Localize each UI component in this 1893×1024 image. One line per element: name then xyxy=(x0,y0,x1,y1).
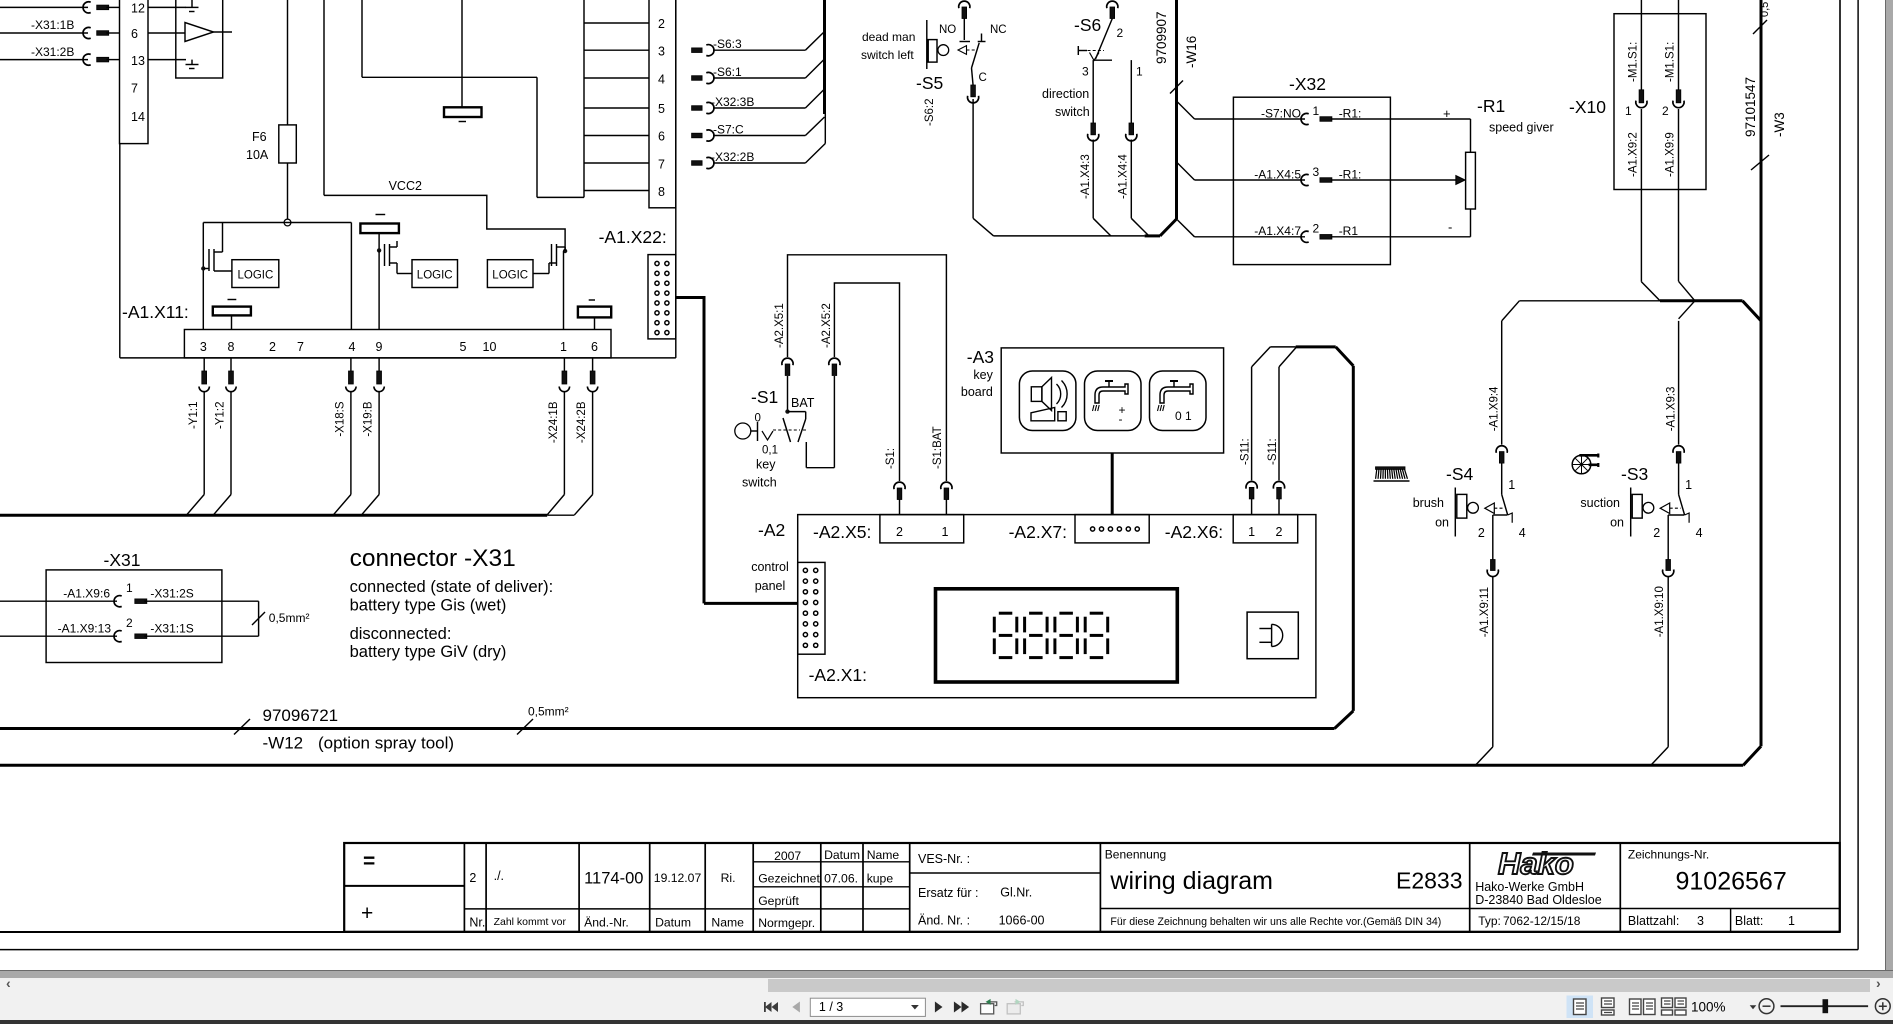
Hako logo xyxy=(1498,846,1596,881)
svg-text:-A3: -A3 xyxy=(967,347,994,367)
switch -S5 contacts xyxy=(960,41,971,43)
svg-text:LOGIC: LOGIC xyxy=(238,270,274,282)
svg-text:-A1.X4:5: -A1.X4:5 xyxy=(1254,167,1301,181)
wire S6 top xyxy=(1107,1,1118,8)
svg-text:on: on xyxy=(1610,516,1624,530)
svg-text:Blatt:: Blatt: xyxy=(1735,914,1764,928)
svg-text:3: 3 xyxy=(200,340,207,354)
svg-text:Ersatz für :: Ersatz für : xyxy=(918,886,978,900)
layout two pages continuous xyxy=(1662,998,1687,1015)
wire X10:2 to -S3 xyxy=(1679,281,1695,301)
svg-text:-A1.X9:10: -A1.X9:10 xyxy=(1654,586,1666,637)
wire -A1.X4:3 xyxy=(1092,60,1094,123)
title block frame xyxy=(0,931,1840,933)
zoom in xyxy=(1875,999,1890,1014)
bus -W3 xyxy=(1760,0,1763,746)
svg-text:-S7:C: -S7:C xyxy=(713,122,744,136)
svg-text:-S5: -S5 xyxy=(916,73,943,93)
ground at op-amp bottom xyxy=(191,60,193,65)
wire pin 3 row xyxy=(584,49,649,51)
wire -Y1:1 xyxy=(203,358,205,371)
svg-text:Name: Name xyxy=(867,848,900,862)
svg-text:5: 5 xyxy=(658,102,665,116)
svg-text:-A1.X9:9: -A1.X9:9 xyxy=(1665,132,1677,177)
svg-text:-A1.X4:4: -A1.X4:4 xyxy=(1118,154,1130,199)
svg-text:on: on xyxy=(1435,516,1449,530)
svg-text:-A1.X22:: -A1.X22: xyxy=(599,227,667,247)
svg-text:Änd.-Nr.: Änd.-Nr. xyxy=(584,916,629,930)
ground at op-amp top xyxy=(191,0,193,7)
scroll chevron right xyxy=(1876,975,1881,991)
svg-text:19.12.07: 19.12.07 xyxy=(654,871,702,885)
wire pin 6 row xyxy=(584,135,649,137)
module outline bottom xyxy=(0,764,1743,767)
brush icon xyxy=(1374,480,1410,482)
svg-text:LOGIC: LOGIC xyxy=(492,270,528,282)
svg-text:Hako-Werke GmbH: Hako-Werke GmbH xyxy=(1475,880,1584,894)
wire -M1.S1: pin 1 xyxy=(1640,0,1642,90)
suction fan icon xyxy=(1572,455,1591,474)
svg-text:-X10: -X10 xyxy=(1569,97,1606,117)
bus -W12 internal xyxy=(0,514,547,517)
wire pin 6 to op-amp xyxy=(148,32,185,34)
svg-text:1: 1 xyxy=(1685,478,1692,492)
wire S5 top xyxy=(959,1,970,8)
vertical scrollbar xyxy=(1885,0,1887,970)
svg-text:-S11:: -S11: xyxy=(1240,438,1252,465)
scroll chevron left xyxy=(6,975,11,991)
sheet border outer right xyxy=(1857,0,1859,950)
logic block 3 xyxy=(487,260,533,288)
svg-text:0 1: 0 1 xyxy=(1175,409,1192,423)
svg-text:3: 3 xyxy=(1697,914,1704,928)
svg-text:NO: NO xyxy=(939,24,956,36)
svg-text:-A1.X9:6: -A1.X9:6 xyxy=(63,587,110,601)
svg-text:-X18:S: -X18:S xyxy=(334,401,346,436)
svg-text:0,5mm²: 0,5mm² xyxy=(269,611,310,625)
svg-text:-A2.X5:: -A2.X5: xyxy=(813,522,871,542)
svg-text:Zahl kommt vor: Zahl kommt vor xyxy=(494,916,567,928)
svg-text:-A2.X5:2: -A2.X5:2 xyxy=(821,303,833,348)
cable marker W3 mid xyxy=(1751,155,1769,170)
layout continuous xyxy=(1602,998,1615,1015)
document area bottom edge xyxy=(0,970,1893,972)
svg-text:-Y1:2: -Y1:2 xyxy=(214,402,226,430)
svg-text:Gezeichnet: Gezeichnet xyxy=(758,872,820,886)
svg-text:key: key xyxy=(973,368,993,382)
wire pin9 riser xyxy=(378,250,380,329)
connector box -A1.X22 pins 2-8 xyxy=(649,0,676,208)
svg-text:-A2: -A2 xyxy=(758,520,785,540)
svg-text:suction: suction xyxy=(1580,496,1620,510)
bus -W12 option line xyxy=(0,727,1335,730)
svg-text:1: 1 xyxy=(942,525,949,539)
svg-text:kupe: kupe xyxy=(867,872,894,886)
svg-text:1174-00: 1174-00 xyxy=(584,870,643,888)
wire loop xyxy=(258,601,260,636)
svg-text:6: 6 xyxy=(591,340,598,354)
svg-text:VCC2: VCC2 xyxy=(389,179,422,193)
wire VCC2 riser xyxy=(323,0,325,195)
battery symbol B1 xyxy=(444,107,482,117)
wire to -S7:NO xyxy=(1177,101,1195,119)
svg-text:-A1.X9:13: -A1.X9:13 xyxy=(58,622,112,636)
wire -Y1:2 xyxy=(230,358,232,371)
svg-text:-S3: -S3 xyxy=(1621,464,1648,484)
wire -A1.X4:4 xyxy=(1130,60,1132,123)
svg-text:1066-00: 1066-00 xyxy=(999,914,1045,928)
svg-text:-A1.X4:3: -A1.X4:3 xyxy=(1080,154,1092,199)
svg-text:4: 4 xyxy=(658,73,665,87)
svg-text:12: 12 xyxy=(131,2,145,16)
svg-text:control: control xyxy=(751,560,789,574)
svg-text:battery type GiV (dry): battery type GiV (dry) xyxy=(350,643,507,661)
svg-text:-: - xyxy=(1448,220,1452,235)
svg-text:2: 2 xyxy=(658,17,665,31)
toolbar icons xyxy=(0,993,1893,1020)
wire -X24:1B xyxy=(563,358,565,371)
wire pin3 riser xyxy=(202,223,204,330)
svg-text:2: 2 xyxy=(1117,26,1124,40)
svg-text:1: 1 xyxy=(560,340,567,354)
svg-text:C: C xyxy=(979,72,987,84)
svg-text:8: 8 xyxy=(658,185,665,199)
svg-text:dead man: dead man xyxy=(862,30,915,44)
harness top xyxy=(1270,346,1295,348)
wire pin 2 row xyxy=(584,22,649,24)
svg-text:-X32: -X32 xyxy=(1289,74,1326,94)
svg-text:2007: 2007 xyxy=(774,849,801,863)
cable trunk xyxy=(536,77,538,197)
svg-text:-M1.S1:: -M1.S1: xyxy=(1628,42,1640,82)
svg-text:-X31:1S: -X31:1S xyxy=(150,622,193,636)
svg-text:-W3: -W3 xyxy=(1772,112,1787,137)
svg-text:-S6:2: -S6:2 xyxy=(924,99,936,127)
svg-text:-: - xyxy=(1119,412,1123,426)
wire fuse to junction xyxy=(287,163,289,219)
svg-text:./.: ./. xyxy=(494,869,504,883)
A1 module right edge xyxy=(675,0,677,358)
wire pin 5 row xyxy=(584,107,649,109)
cable marker W12 a xyxy=(234,719,250,735)
svg-text:-X31: -X31 xyxy=(104,550,141,570)
switch -S6 blade xyxy=(1096,19,1113,60)
wire X10:1 to -S4 xyxy=(1641,282,1660,301)
wire pin 7 row xyxy=(584,162,649,164)
svg-text:LOGIC: LOGIC xyxy=(417,270,453,282)
svg-text:switch: switch xyxy=(742,476,777,490)
svg-text:Datum: Datum xyxy=(655,916,691,930)
svg-text:7: 7 xyxy=(131,82,138,96)
svg-text:-S1: -S1 xyxy=(751,387,778,407)
svg-text:Blattzahl:: Blattzahl: xyxy=(1628,914,1679,928)
svg-text:panel: panel xyxy=(755,579,786,593)
svg-text:2: 2 xyxy=(269,340,276,354)
wire to bus -W16 xyxy=(994,235,1145,237)
page number box xyxy=(810,998,925,1016)
title block horizontals xyxy=(344,885,464,887)
svg-text:-R1:: -R1: xyxy=(1339,167,1362,181)
svg-text:7062-12/15/18: 7062-12/15/18 xyxy=(1503,914,1581,928)
logic block 1 xyxy=(232,260,279,288)
svg-text:8: 8 xyxy=(228,340,235,354)
A1 module outline left xyxy=(119,144,121,358)
svg-text:connector -X31: connector -X31 xyxy=(350,545,516,572)
svg-text:-A2.X5:1: -A2.X5:1 xyxy=(774,303,786,348)
svg-text:4: 4 xyxy=(349,340,356,354)
wire pin 4 row xyxy=(584,77,649,79)
svg-text:-S7:NO: -S7:NO xyxy=(1261,106,1301,120)
svg-text:Gl.Nr.: Gl.Nr. xyxy=(1000,886,1032,900)
svg-text:Hako: Hako xyxy=(1498,846,1574,881)
connector -A1.X22 xyxy=(648,255,676,339)
svg-text:3: 3 xyxy=(1313,165,1320,179)
svg-text:-X31:2B: -X31:2B xyxy=(31,45,74,59)
svg-text:2: 2 xyxy=(1276,525,1283,539)
svg-text:2: 2 xyxy=(1478,526,1485,540)
svg-text:-A1.X9:3: -A1.X9:3 xyxy=(1666,387,1678,432)
wire pin4 riser xyxy=(350,223,352,330)
svg-text:14: 14 xyxy=(131,110,145,124)
svg-text:-R1: -R1 xyxy=(1339,224,1359,238)
svg-text:1: 1 xyxy=(1625,104,1632,118)
svg-text:1: 1 xyxy=(1248,525,1255,539)
svg-text:-A1.X9:2: -A1.X9:2 xyxy=(1628,132,1640,177)
svg-text:-A1.X9:4: -A1.X9:4 xyxy=(1489,386,1501,431)
svg-text:board: board xyxy=(961,385,993,399)
svg-text:-R1:: -R1: xyxy=(1339,106,1362,120)
svg-text:brush: brush xyxy=(1413,496,1444,510)
svg-text:91026567: 91026567 xyxy=(1676,868,1787,896)
svg-text:F6: F6 xyxy=(252,130,267,144)
wire pin1 riser xyxy=(563,251,565,330)
svg-text:2: 2 xyxy=(896,525,903,539)
svg-text:-M1.S1:: -M1.S1: xyxy=(1665,42,1677,82)
battery symbol B3 xyxy=(360,224,399,234)
next view icon (disabled) xyxy=(1007,999,1023,1014)
wire -X24:2B xyxy=(592,358,594,371)
svg-text:4: 4 xyxy=(1696,526,1703,540)
svg-text:7: 7 xyxy=(658,158,665,172)
svg-text:97096721: 97096721 xyxy=(263,706,339,725)
svg-text:10: 10 xyxy=(483,340,497,354)
svg-text:97101547: 97101547 xyxy=(1743,77,1758,137)
keyboard button horn xyxy=(1019,371,1076,431)
nav prev page (disabled) xyxy=(792,1002,800,1013)
svg-text:-Y1:1: -Y1:1 xyxy=(188,402,200,430)
svg-text:4: 4 xyxy=(1519,526,1526,540)
svg-text:1: 1 xyxy=(1313,104,1320,118)
svg-text:-R1: -R1 xyxy=(1477,96,1505,116)
connector box pins 12,6,13,7,14 xyxy=(120,0,149,144)
svg-text:switch left: switch left xyxy=(861,48,914,62)
wire pin 13 to ground xyxy=(148,59,186,61)
wire pin 8 row xyxy=(584,190,649,192)
svg-text:1: 1 xyxy=(1136,65,1143,79)
harness vertical xyxy=(1352,366,1355,711)
nav next page xyxy=(935,1002,943,1013)
svg-text:7: 7 xyxy=(297,340,304,354)
toolbar background xyxy=(0,978,1893,1020)
svg-text:-A1.X9:11: -A1.X9:11 xyxy=(1479,587,1491,637)
svg-text:-S6:1: -S6:1 xyxy=(713,65,742,79)
svg-text:NC: NC xyxy=(990,24,1007,36)
svg-text:6: 6 xyxy=(658,130,665,144)
svg-text:2: 2 xyxy=(1653,526,1660,540)
wire -M1.S1: pin 2 xyxy=(1678,0,1680,90)
zoom out xyxy=(1759,999,1774,1014)
svg-text:-X24:2B: -X24:2B xyxy=(576,401,588,443)
svg-text:Normgepr.: Normgepr. xyxy=(758,916,815,930)
svg-text:07.06.: 07.06. xyxy=(824,872,858,886)
svg-text:1: 1 xyxy=(1788,914,1795,928)
wire to -A1.X4:5 xyxy=(1177,162,1195,180)
backlight icon xyxy=(1247,612,1298,659)
svg-text:-S1:BAT: -S1:BAT xyxy=(932,426,944,469)
transistor Q3 xyxy=(533,273,549,275)
svg-text:10A: 10A xyxy=(246,148,269,162)
bus -W16 xyxy=(1175,0,1178,220)
svg-text:E2833: E2833 xyxy=(1396,868,1463,894)
bus stub xyxy=(823,0,826,114)
svg-text:Für diese Zeichnung behalten w: Für diese Zeichnung behalten wir uns all… xyxy=(1110,916,1441,928)
connector row -A1.X11 xyxy=(184,330,611,358)
svg-text:VES-Nr. :: VES-Nr. : xyxy=(918,852,970,866)
svg-text:key: key xyxy=(756,458,776,472)
7-segment 8888 xyxy=(999,612,1013,615)
svg-text:-X24:1B: -X24:1B xyxy=(548,401,560,443)
svg-text:Benennung: Benennung xyxy=(1105,848,1166,862)
svg-text:Ri.: Ri. xyxy=(721,871,736,885)
svg-text:Datum: Datum xyxy=(824,848,860,862)
keyboard button water onoff xyxy=(1150,371,1207,431)
svg-text:100%: 100% xyxy=(1691,1000,1726,1015)
svg-text:-X32:3B: -X32:3B xyxy=(711,95,754,109)
svg-text:2: 2 xyxy=(1662,104,1669,118)
svg-text:9: 9 xyxy=(376,340,383,354)
A1 module bottom xyxy=(120,357,676,359)
nav last page xyxy=(954,1002,969,1013)
svg-text:Zeichnungs-Nr.: Zeichnungs-Nr. xyxy=(1628,848,1709,862)
svg-text:9709907: 9709907 xyxy=(1154,11,1169,64)
wire battery feed xyxy=(461,0,463,107)
wire -X19:B xyxy=(378,358,380,371)
previous view icon xyxy=(981,999,997,1014)
svg-text:=: = xyxy=(363,850,375,873)
logic cell rail xyxy=(203,222,351,224)
svg-text:connected (state of deliver):: connected (state of deliver): xyxy=(350,578,554,596)
svg-text:-W12: -W12 xyxy=(263,734,304,753)
svg-text:Typ:: Typ: xyxy=(1478,914,1501,928)
svg-text:-A2.X1:: -A2.X1: xyxy=(809,665,867,685)
svg-text:+: + xyxy=(361,902,373,925)
wire pin 12 to ground xyxy=(148,6,186,8)
junction node xyxy=(284,219,291,226)
bus harness right xyxy=(1660,299,1743,302)
svg-text:Nr.: Nr. xyxy=(469,916,485,930)
logic block 2 xyxy=(412,260,458,288)
switch -S5 actuator xyxy=(926,20,928,69)
transistor Q1 xyxy=(208,249,210,271)
op-amp U1 xyxy=(185,23,214,42)
taskbar strip xyxy=(0,1020,1893,1024)
svg-text:BAT: BAT xyxy=(791,396,815,410)
cable marker W12 b xyxy=(517,719,533,735)
svg-text:-A2.X6:: -A2.X6: xyxy=(1165,522,1223,542)
svg-text:(option spray tool): (option spray tool) xyxy=(318,734,454,753)
layout single page (active) xyxy=(1567,996,1594,1019)
svg-text:-X31:2S: -X31:2S xyxy=(150,587,193,601)
zoom slider xyxy=(1781,1005,1869,1007)
svg-text:D-23840 Bad Oldesloe: D-23840 Bad Oldesloe xyxy=(1475,893,1602,907)
transistor Q2 xyxy=(377,248,381,252)
svg-text:3: 3 xyxy=(1082,65,1089,79)
cable marker W3 top xyxy=(1753,20,1767,34)
nav first page xyxy=(764,1002,778,1012)
svg-text:Name: Name xyxy=(711,916,744,930)
fuse F6 10A xyxy=(279,125,297,163)
battery symbol B4 xyxy=(578,307,611,318)
svg-text:-A2.X7:: -A2.X7: xyxy=(1009,522,1067,542)
svg-text:2: 2 xyxy=(469,871,476,885)
svg-text:3: 3 xyxy=(658,45,665,59)
svg-text:-X31:1B: -X31:1B xyxy=(31,18,74,32)
wire to -A1.X4:7 xyxy=(1178,220,1195,237)
title block verticals xyxy=(463,843,465,932)
svg-text:-X19:B: -X19:B xyxy=(363,401,375,436)
svg-text:-S6:3: -S6:3 xyxy=(713,37,742,51)
svg-text:-S11:: -S11: xyxy=(1267,438,1279,465)
wire to fuse F6 xyxy=(287,0,289,125)
battery symbol B2 xyxy=(213,307,251,316)
wire to pin 12 xyxy=(0,6,88,8)
svg-text:1: 1 xyxy=(126,581,133,595)
svg-text:13: 13 xyxy=(131,54,145,68)
horizontal scrollbar thumb xyxy=(768,979,1870,992)
svg-text:2: 2 xyxy=(1313,222,1320,236)
sheet border inner right xyxy=(1839,0,1841,932)
wire A1.X22 to A2.X1 xyxy=(676,296,704,299)
svg-text:5: 5 xyxy=(460,340,467,354)
svg-text:2: 2 xyxy=(126,616,133,630)
svg-text:battery type Gis (wet): battery type Gis (wet) xyxy=(350,597,507,615)
svg-text:0,5: 0,5 xyxy=(1759,2,1771,17)
svg-text:-S6: -S6 xyxy=(1074,15,1101,35)
svg-text:disconnected:: disconnected: xyxy=(350,625,452,643)
cable marker X31 xyxy=(252,612,265,625)
wire trunk riser xyxy=(361,0,363,77)
svg-text:1: 1 xyxy=(1508,478,1515,492)
wire A3 to A2.X7 xyxy=(1111,453,1114,515)
wire -X18:S xyxy=(350,358,352,371)
svg-text:Geprüft: Geprüft xyxy=(758,894,799,908)
svg-text:wiring diagram: wiring diagram xyxy=(1109,867,1273,895)
cable marker W16 xyxy=(1170,81,1183,94)
layout two pages xyxy=(1630,999,1656,1015)
svg-text:Änd. Nr. :: Änd. Nr. : xyxy=(918,914,970,928)
op-amp U1 box xyxy=(176,0,223,78)
svg-text:0,5mm²: 0,5mm² xyxy=(528,705,569,719)
svg-text:0,1: 0,1 xyxy=(762,445,778,457)
svg-text:-S4: -S4 xyxy=(1446,464,1474,484)
svg-text:switch: switch xyxy=(1055,105,1090,119)
svg-text:-W16: -W16 xyxy=(1184,36,1199,68)
svg-text:-S1:: -S1: xyxy=(885,448,897,469)
page number text xyxy=(819,1000,843,1014)
svg-text:-X32:2B: -X32:2B xyxy=(711,150,754,164)
display xyxy=(936,589,1178,682)
svg-text:+: + xyxy=(1443,106,1451,121)
